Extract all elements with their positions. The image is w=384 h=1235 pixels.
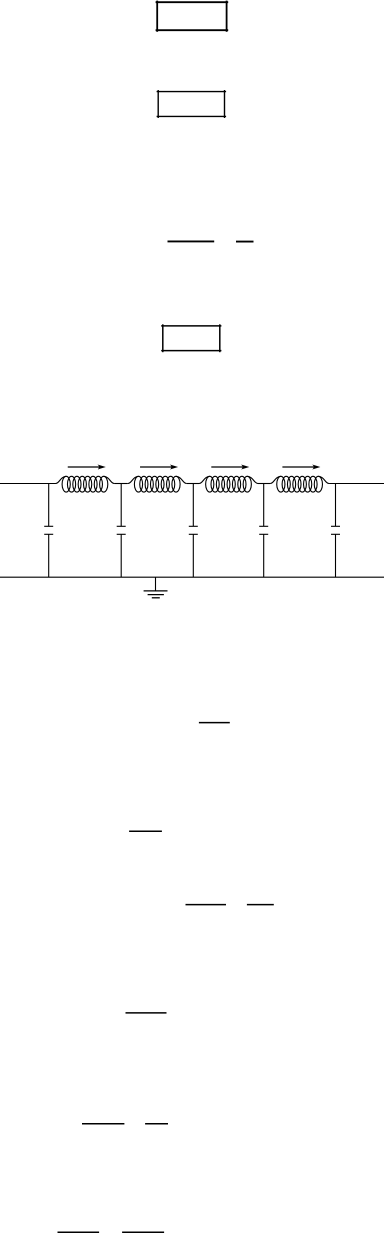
- equation 6 fraction bar (RHS): [145, 1123, 168, 1125]
- capacitor C2: [117, 526, 126, 534]
- inductor L2: [128, 476, 187, 492]
- wire: shunt branch 1 upper: [48, 484, 50, 527]
- ground: [144, 577, 168, 598]
- capacitor C1: [44, 526, 53, 534]
- inductor L4: [270, 476, 329, 492]
- empty figure box 2: [157, 90, 227, 118]
- wire: shunt branch 5 lower: [335, 534, 337, 577]
- wire: shunt branch 4 upper: [263, 484, 265, 527]
- wire: top bus segment 1: [0, 483, 55, 485]
- wire: shunt branch 4 lower: [263, 534, 265, 577]
- wire: shunt branch 5 upper: [335, 484, 337, 527]
- current arrow I4 (above L4): [282, 465, 320, 470]
- equation 7 fraction bar (RHS): [122, 1231, 164, 1233]
- wire: top bus segment 4: [258, 483, 270, 485]
- current arrow I3 (above L3): [211, 465, 249, 470]
- inductor L1: [56, 476, 115, 492]
- equation 7 fraction bar (LHS): [58, 1231, 100, 1233]
- equation 1 minus/RHS bar: [236, 241, 254, 243]
- wire: shunt branch 1 lower: [48, 534, 50, 577]
- equation 2 fraction bar: [199, 722, 230, 724]
- equation 6 fraction bar (LHS): [82, 1123, 124, 1125]
- wire: shunt branch 3 lower: [192, 534, 194, 577]
- LC ladder transmission-line model: [0, 465, 384, 598]
- wire: top bus segment 5: [329, 483, 384, 485]
- current arrow I2 (above L2): [140, 465, 178, 470]
- current arrow I1 (above L1): [68, 465, 106, 470]
- capacitor C3: [189, 526, 198, 534]
- wire: ground bus (bottom): [0, 576, 384, 578]
- capacitor C4: [259, 526, 268, 534]
- wire: top bus segment 2: [114, 483, 127, 485]
- wire: shunt branch 2 lower: [120, 534, 122, 577]
- equation 5 fraction bar: [126, 1012, 167, 1014]
- wire: shunt branch 3 upper: [192, 484, 194, 527]
- wire: top bus segment 3: [187, 483, 199, 485]
- equation 3 fraction bar: [129, 830, 162, 832]
- inductor L3: [199, 476, 258, 492]
- empty figure box 1: [156, 1, 229, 32]
- equation 1 fraction bar: [168, 240, 215, 242]
- wire: shunt branch 2 upper: [120, 484, 122, 527]
- empty figure box 3: [161, 324, 221, 352]
- equation 4 fraction bar (LHS): [186, 904, 227, 906]
- equation 4 fraction bar (RHS): [247, 904, 274, 906]
- capacitor C5: [331, 526, 340, 534]
